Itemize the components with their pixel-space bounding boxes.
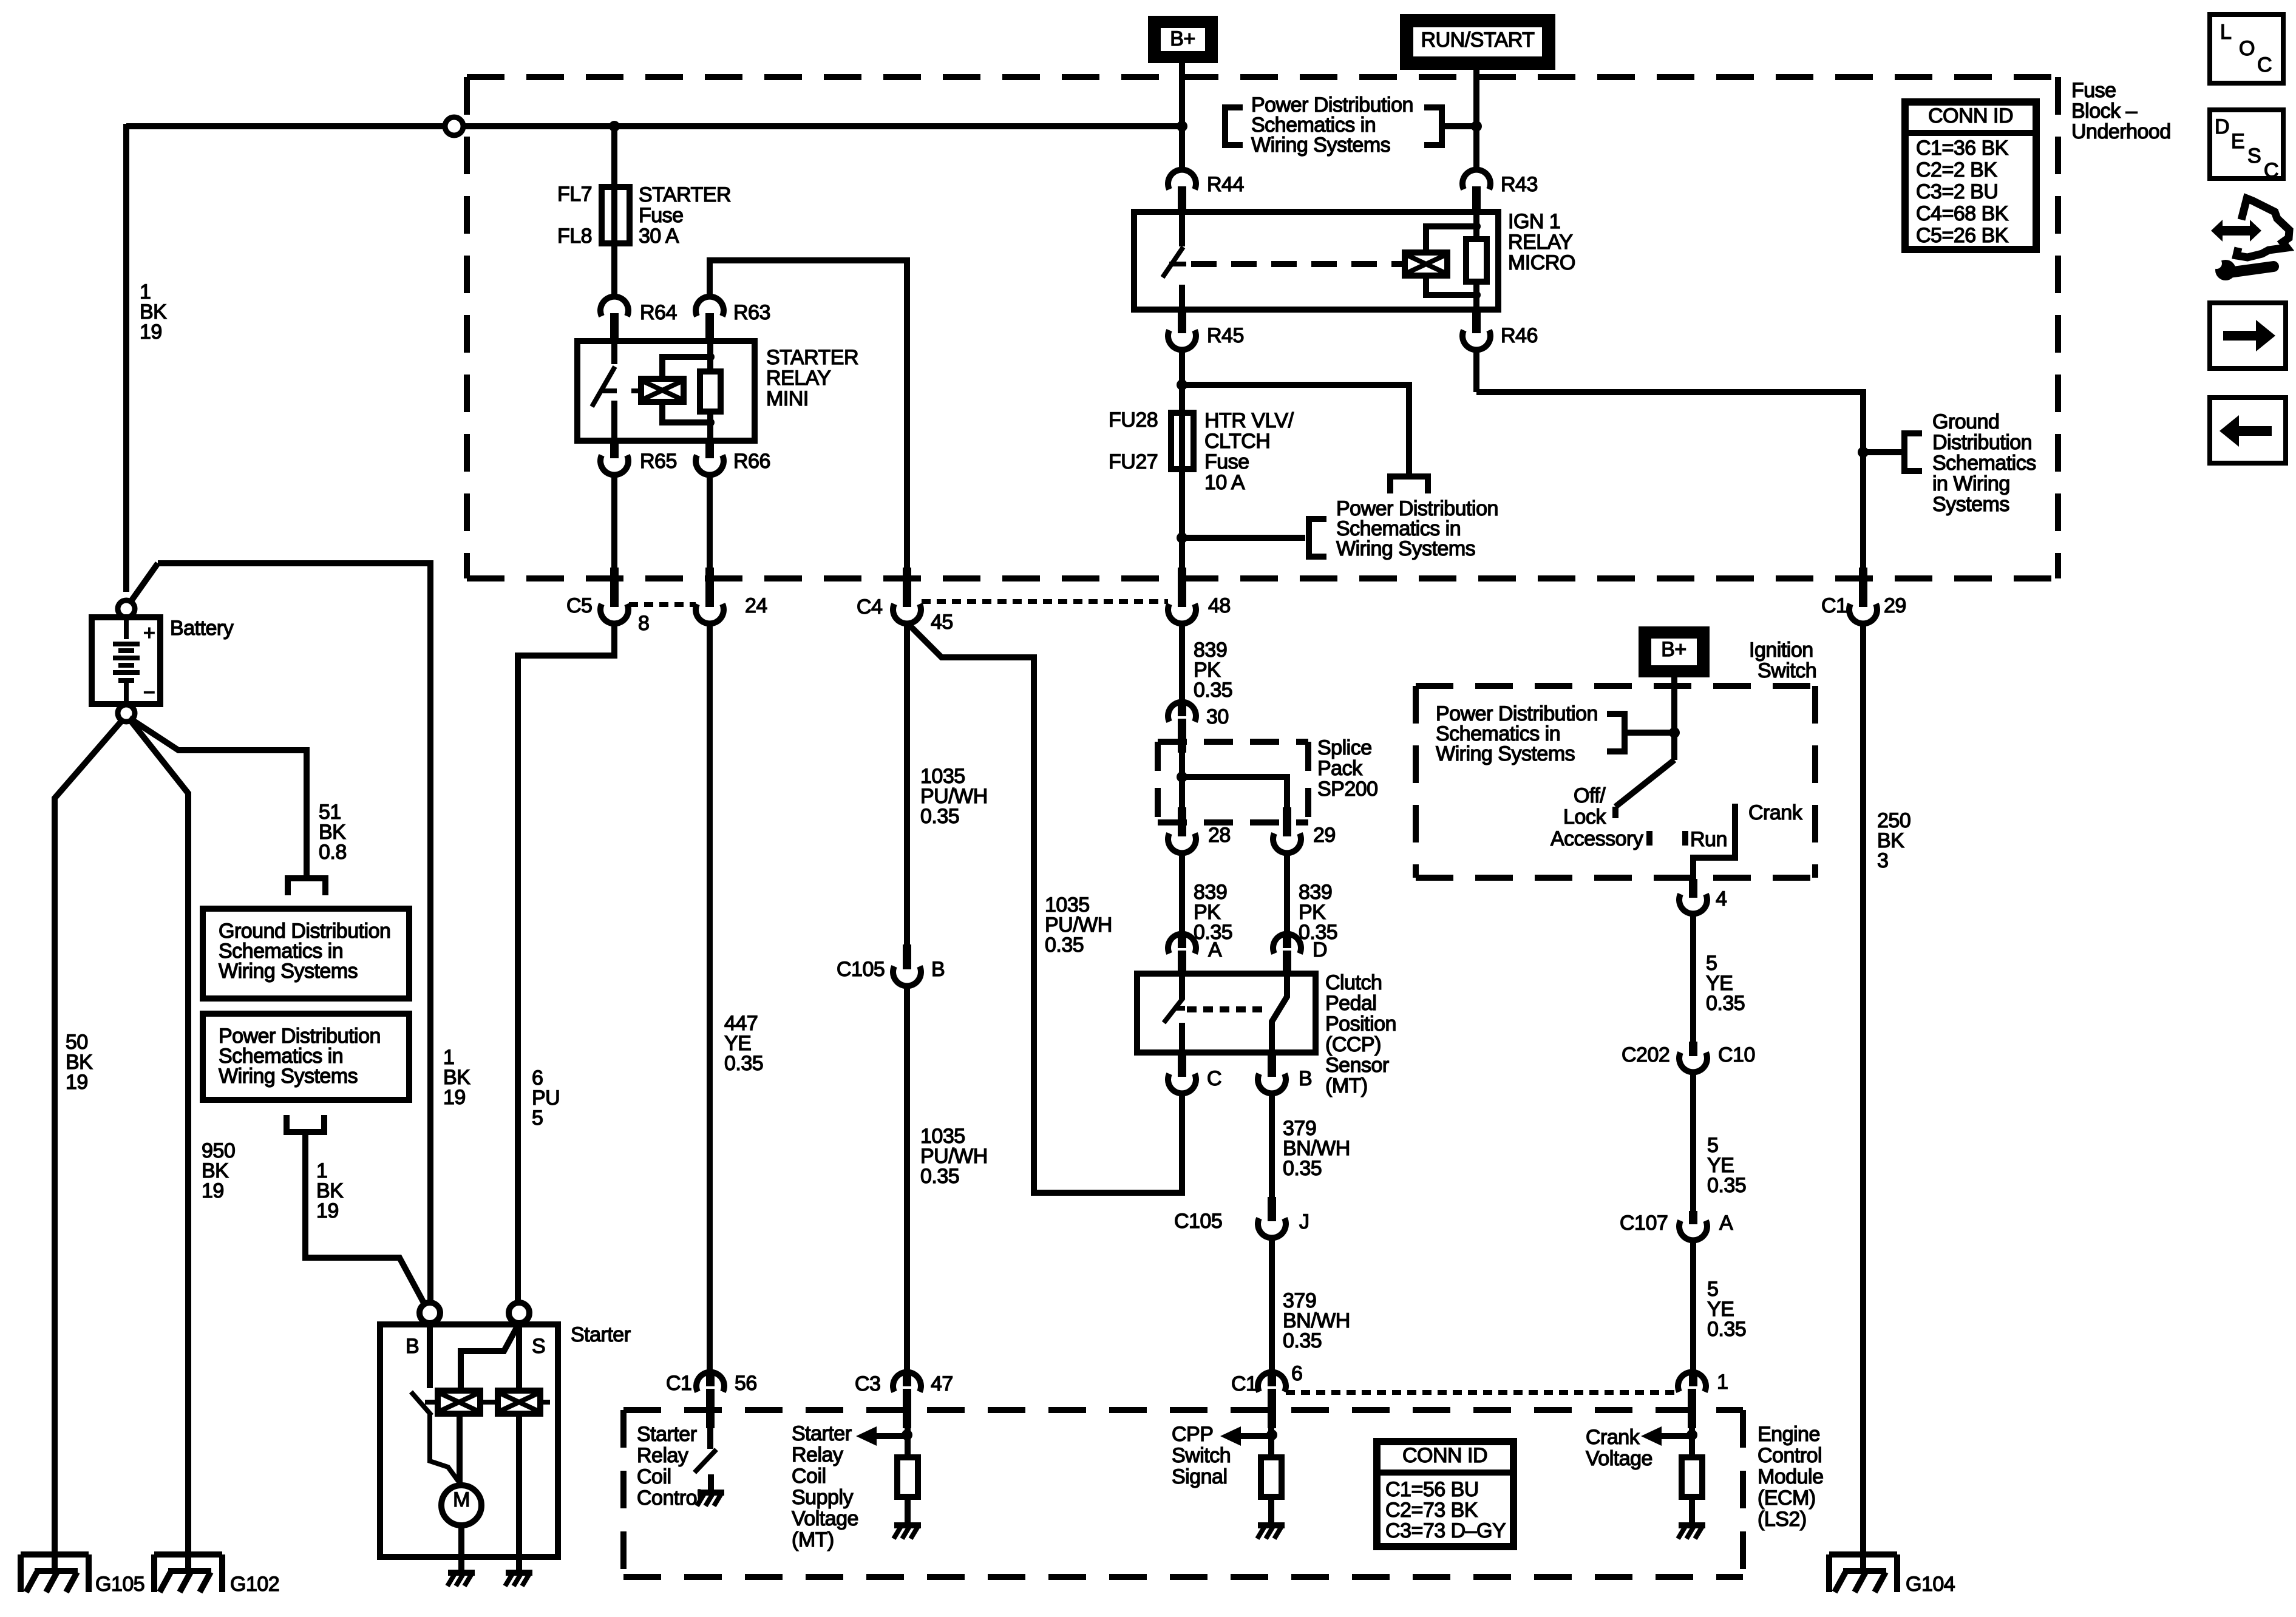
svg-text:A: A xyxy=(1208,938,1222,961)
svg-text:Starter: Starter xyxy=(637,1423,697,1446)
svg-text:Control: Control xyxy=(637,1486,701,1510)
svg-text:C10: C10 xyxy=(1718,1043,1755,1066)
svg-text:C1: C1 xyxy=(666,1372,691,1395)
svg-text:HTR VLV/: HTR VLV/ xyxy=(1204,409,1294,432)
svg-text:Crank: Crank xyxy=(1748,801,1803,824)
svg-text:CONN ID: CONN ID xyxy=(1402,1444,1487,1467)
svg-text:Voltage: Voltage xyxy=(1586,1447,1652,1470)
svg-text:47: 47 xyxy=(931,1372,953,1395)
svg-text:B: B xyxy=(1299,1067,1312,1090)
svg-text:(ECM): (ECM) xyxy=(1758,1486,1816,1510)
svg-text:D: D xyxy=(1313,938,1327,961)
svg-text:C1=56 BU: C1=56 BU xyxy=(1385,1478,1479,1501)
svg-text:(CCP): (CCP) xyxy=(1325,1033,1381,1056)
svg-text:Distribution: Distribution xyxy=(1932,431,2032,454)
svg-text:FL8: FL8 xyxy=(557,225,592,248)
svg-text:C: C xyxy=(2257,53,2272,76)
svg-text:FL7: FL7 xyxy=(557,183,592,206)
svg-text:C5: C5 xyxy=(566,594,592,617)
svg-text:Control: Control xyxy=(1758,1444,1822,1467)
svg-text:FU27: FU27 xyxy=(1109,450,1158,473)
svg-text:0.35: 0.35 xyxy=(1707,1174,1746,1197)
svg-text:3: 3 xyxy=(1877,849,1888,872)
svg-text:Wiring Systems: Wiring Systems xyxy=(1436,742,1575,765)
svg-text:10 A: 10 A xyxy=(1204,471,1245,494)
svg-text:J: J xyxy=(1299,1210,1309,1233)
svg-text:C: C xyxy=(1207,1067,1221,1090)
svg-text:R63: R63 xyxy=(733,301,770,324)
svg-text:1: 1 xyxy=(1717,1371,1728,1394)
svg-text:RELAY: RELAY xyxy=(1508,231,1572,254)
svg-text:STARTER: STARTER xyxy=(639,183,731,206)
svg-text:0.35: 0.35 xyxy=(1045,934,1084,957)
svg-text:C202: C202 xyxy=(1622,1043,1669,1066)
svg-text:Fuse: Fuse xyxy=(2071,79,2116,102)
svg-text:B+: B+ xyxy=(1170,27,1195,50)
svg-text:Fuse: Fuse xyxy=(1204,450,1249,473)
svg-text:(MT): (MT) xyxy=(792,1528,834,1551)
svg-text:C107: C107 xyxy=(1620,1212,1668,1235)
svg-text:Starter: Starter xyxy=(792,1422,852,1445)
svg-text:0.35: 0.35 xyxy=(1283,1157,1322,1180)
svg-text:30 A: 30 A xyxy=(639,225,679,248)
svg-text:R64: R64 xyxy=(640,301,677,324)
svg-text:in Wiring: in Wiring xyxy=(1932,472,2010,495)
svg-text:19: 19 xyxy=(443,1086,466,1109)
svg-text:Relay: Relay xyxy=(637,1444,688,1467)
svg-text:G104: G104 xyxy=(1906,1573,1955,1596)
svg-text:RUN/START: RUN/START xyxy=(1421,29,1535,52)
svg-text:(MT): (MT) xyxy=(1325,1074,1368,1097)
svg-text:28: 28 xyxy=(1208,824,1231,847)
svg-text:Starter: Starter xyxy=(571,1323,631,1346)
svg-text:19: 19 xyxy=(316,1199,339,1222)
svg-text:Run: Run xyxy=(1690,828,1727,851)
svg-text:C4: C4 xyxy=(857,595,882,619)
svg-text:Pedal: Pedal xyxy=(1325,992,1376,1015)
svg-text:Underhood: Underhood xyxy=(2071,120,2171,143)
svg-text:SP200: SP200 xyxy=(1317,778,1378,801)
svg-text:Wiring Systems: Wiring Systems xyxy=(1336,537,1475,560)
svg-text:Ignition: Ignition xyxy=(1749,639,1813,662)
svg-text:A: A xyxy=(1719,1212,1733,1235)
svg-text:Pack: Pack xyxy=(1317,757,1363,780)
svg-text:R65: R65 xyxy=(640,450,677,473)
svg-text:IGN 1: IGN 1 xyxy=(1508,210,1560,233)
svg-text:0.35: 0.35 xyxy=(1194,679,1232,702)
svg-text:C2=2 BK: C2=2 BK xyxy=(1916,158,1997,181)
svg-text:M: M xyxy=(453,1488,470,1511)
svg-text:0.35: 0.35 xyxy=(724,1052,763,1075)
svg-text:CONN ID: CONN ID xyxy=(1928,104,2013,127)
svg-text:B: B xyxy=(931,958,945,981)
svg-text:Supply: Supply xyxy=(792,1486,853,1509)
svg-text:C2=73 BK: C2=73 BK xyxy=(1385,1499,1478,1522)
svg-text:Wiring Systems: Wiring Systems xyxy=(219,1065,358,1088)
svg-text:Schematics: Schematics xyxy=(1932,452,2036,475)
svg-text:MICRO: MICRO xyxy=(1508,251,1575,274)
svg-text:−: − xyxy=(143,681,155,704)
svg-text:S: S xyxy=(2247,144,2261,168)
svg-text:Signal: Signal xyxy=(1172,1465,1228,1488)
svg-text:R66: R66 xyxy=(733,450,770,473)
svg-text:L: L xyxy=(2220,21,2231,44)
svg-text:C3: C3 xyxy=(855,1372,880,1395)
svg-text:R45: R45 xyxy=(1207,324,1244,347)
svg-text:30: 30 xyxy=(1206,705,1229,728)
svg-text:56: 56 xyxy=(735,1372,757,1395)
svg-text:Block –: Block – xyxy=(2071,100,2138,123)
svg-text:Coil: Coil xyxy=(792,1465,826,1488)
svg-text:Lock: Lock xyxy=(1563,805,1606,829)
svg-text:Wiring Systems: Wiring Systems xyxy=(219,960,358,983)
svg-text:0.35: 0.35 xyxy=(1707,1318,1746,1341)
svg-text:0.35: 0.35 xyxy=(920,1165,959,1188)
svg-text:R43: R43 xyxy=(1501,173,1538,196)
svg-text:C1=36 BK: C1=36 BK xyxy=(1916,137,2009,160)
svg-text:Systems: Systems xyxy=(1932,493,2009,516)
svg-text:G105: G105 xyxy=(95,1573,144,1596)
svg-text:0.35: 0.35 xyxy=(1706,992,1745,1015)
svg-text:Voltage: Voltage xyxy=(792,1507,858,1530)
svg-text:Engine: Engine xyxy=(1758,1423,1820,1446)
svg-text:Clutch: Clutch xyxy=(1325,971,1382,994)
svg-text:C1: C1 xyxy=(1821,594,1847,617)
svg-text:S: S xyxy=(532,1335,545,1358)
svg-text:Coil: Coil xyxy=(637,1465,671,1488)
svg-text:Module: Module xyxy=(1758,1465,1824,1488)
svg-text:C: C xyxy=(2264,159,2278,182)
svg-text:5: 5 xyxy=(532,1107,543,1130)
svg-text:0.35: 0.35 xyxy=(920,805,959,828)
svg-text:Battery: Battery xyxy=(170,617,234,640)
svg-text:Position: Position xyxy=(1325,1012,1396,1036)
svg-text:G102: G102 xyxy=(230,1573,279,1596)
svg-text:Switch: Switch xyxy=(1758,659,1816,682)
svg-text:0.8: 0.8 xyxy=(319,841,347,864)
svg-text:C4=68 BK: C4=68 BK xyxy=(1916,202,2009,225)
svg-text:C1: C1 xyxy=(1231,1372,1257,1395)
svg-text:Crank: Crank xyxy=(1586,1426,1640,1449)
svg-text:CPP: CPP xyxy=(1172,1423,1213,1446)
svg-text:R44: R44 xyxy=(1207,173,1244,196)
svg-text:MINI: MINI xyxy=(766,387,809,410)
svg-text:Accessory: Accessory xyxy=(1550,827,1643,850)
svg-text:Off/: Off/ xyxy=(1574,784,1606,807)
svg-text:E: E xyxy=(2231,130,2244,153)
svg-text:0.35: 0.35 xyxy=(1283,1329,1322,1352)
svg-text:19: 19 xyxy=(202,1179,224,1202)
svg-text:C5=26 BK: C5=26 BK xyxy=(1916,224,2009,247)
svg-text:4: 4 xyxy=(1716,887,1727,910)
svg-text:C3=2 BU: C3=2 BU xyxy=(1916,180,1998,203)
svg-text:45: 45 xyxy=(931,611,953,634)
svg-text:6: 6 xyxy=(1291,1362,1302,1385)
svg-text:Ground: Ground xyxy=(1932,410,1999,433)
svg-text:(LS2): (LS2) xyxy=(1758,1508,1807,1531)
svg-text:29: 29 xyxy=(1884,594,1906,617)
svg-text:C105: C105 xyxy=(1174,1210,1222,1233)
svg-text:STARTER: STARTER xyxy=(766,346,858,369)
svg-text:RELAY: RELAY xyxy=(766,367,830,390)
svg-text:FU28: FU28 xyxy=(1109,408,1158,432)
svg-text:CLTCH: CLTCH xyxy=(1204,430,1270,453)
svg-text:Switch: Switch xyxy=(1172,1444,1231,1467)
svg-text:D: D xyxy=(2215,115,2229,138)
svg-text:29: 29 xyxy=(1313,824,1336,847)
svg-text:19: 19 xyxy=(66,1071,88,1094)
svg-text:Splice: Splice xyxy=(1317,736,1372,759)
svg-text:48: 48 xyxy=(1208,594,1231,617)
svg-text:19: 19 xyxy=(140,320,162,344)
svg-text:C3=73 D–GY: C3=73 D–GY xyxy=(1385,1519,1506,1542)
svg-text:+: + xyxy=(143,622,155,645)
svg-text:Relay: Relay xyxy=(792,1443,843,1466)
svg-text:Sensor: Sensor xyxy=(1325,1054,1389,1077)
svg-text:R46: R46 xyxy=(1501,324,1538,347)
svg-text:C105: C105 xyxy=(837,958,885,981)
svg-text:Wiring Systems: Wiring Systems xyxy=(1251,134,1390,157)
svg-text:B+: B+ xyxy=(1661,638,1686,661)
svg-text:8: 8 xyxy=(638,612,649,635)
svg-text:O: O xyxy=(2239,37,2255,60)
svg-text:B: B xyxy=(406,1335,419,1358)
svg-text:24: 24 xyxy=(745,594,767,617)
svg-text:Fuse: Fuse xyxy=(639,204,684,227)
